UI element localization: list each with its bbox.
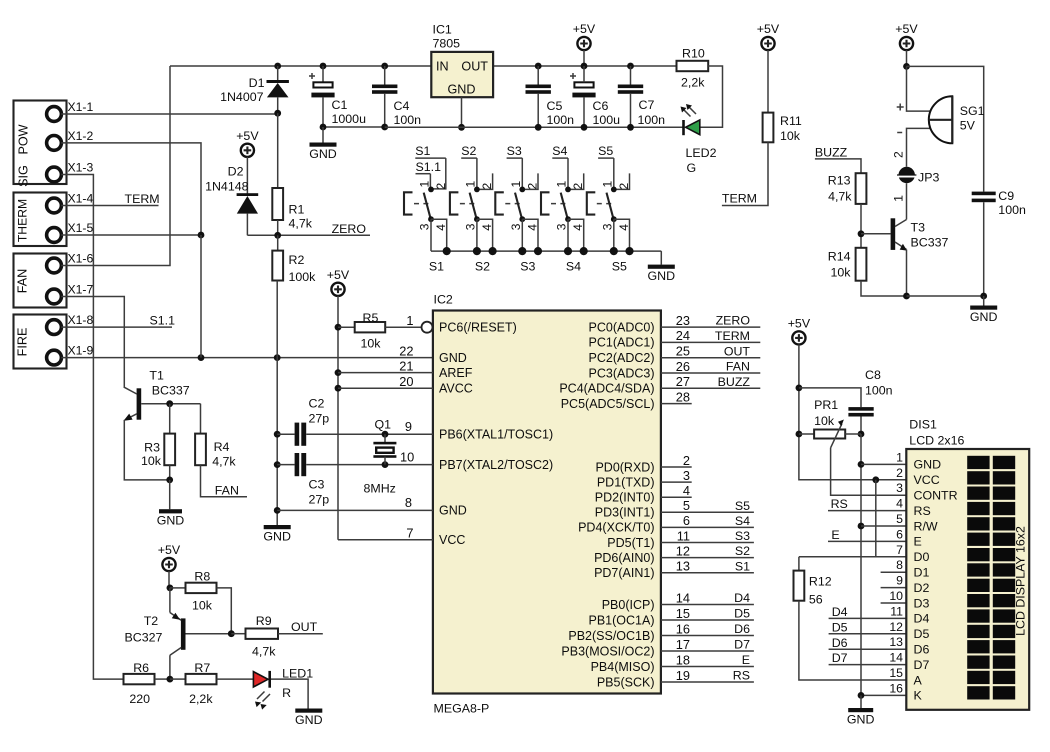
svg-text:S4: S4 <box>566 259 581 273</box>
svg-text:S1: S1 <box>429 259 444 273</box>
S1 contact dots <box>428 187 434 193</box>
junction R3 emitter <box>166 477 173 484</box>
svg-text:3: 3 <box>896 481 903 495</box>
connector X1 block FAN <box>14 254 67 308</box>
svg-text:3: 3 <box>601 223 615 230</box>
resistor R4 <box>200 404 202 434</box>
svg-text:X1-3: X1-3 <box>68 161 94 175</box>
svg-text:RS: RS <box>733 669 750 683</box>
connector X1 block FIRE <box>14 315 67 369</box>
svg-text:MEGA8-P: MEGA8-P <box>434 702 490 716</box>
svg-text:3: 3 <box>555 223 569 230</box>
svg-text:IC2: IC2 <box>434 293 453 307</box>
svg-text:S5: S5 <box>598 144 613 158</box>
svg-text:T1: T1 <box>149 369 164 383</box>
svg-text:7: 7 <box>896 543 903 557</box>
svg-text:6: 6 <box>683 513 690 528</box>
svg-text:D2: D2 <box>914 581 930 595</box>
wire VCC pin 7 <box>338 539 433 541</box>
LED LED2 green <box>682 120 685 135</box>
terminal X1-6 <box>47 258 62 273</box>
capacitor C3 <box>277 464 294 466</box>
LCD stub pins 8 9 10 <box>881 571 907 573</box>
wire T1 base to R3 R4 <box>141 403 200 405</box>
svg-text:GND: GND <box>970 310 998 324</box>
svg-text:10k: 10k <box>192 599 213 613</box>
connector X1 block THERM <box>14 193 67 247</box>
junction C4 bottom <box>381 124 388 131</box>
resistor R8 <box>170 587 186 589</box>
wire rail to ground <box>660 251 662 265</box>
svg-text:3: 3 <box>418 223 432 230</box>
wire R6 to junction <box>155 678 170 680</box>
svg-text:100k: 100k <box>289 270 317 284</box>
svg-text:GND: GND <box>648 269 676 283</box>
connector X1 block POW/SIG <box>14 101 67 185</box>
wire D0/R12 line <box>799 556 906 558</box>
svg-text:R11: R11 <box>780 114 802 128</box>
svg-text:D5: D5 <box>734 607 750 621</box>
transistor T3 BC337 <box>891 218 896 250</box>
svg-text:S1.1: S1.1 <box>416 160 442 174</box>
svg-text:OUT: OUT <box>724 344 751 358</box>
resistor R9 <box>231 633 245 635</box>
svg-text:10k: 10k <box>780 129 801 143</box>
regulator IC1 7805 <box>431 52 493 97</box>
terminal X1-1 <box>47 107 62 122</box>
terminal X1-8 <box>47 320 62 335</box>
svg-text:1: 1 <box>509 181 523 188</box>
wire C2 to pin 9 <box>306 433 433 435</box>
svg-text:PC2(ADC2): PC2(ADC2) <box>589 351 655 365</box>
svg-text:E: E <box>742 653 750 667</box>
svg-text:VCC: VCC <box>914 473 940 487</box>
terminal X1-9 <box>47 350 62 365</box>
svg-text:R/W: R/W <box>914 519 938 533</box>
svg-text:1: 1 <box>601 181 615 188</box>
resistor R14 <box>856 248 867 281</box>
svg-text:4,7k: 4,7k <box>828 190 852 204</box>
svg-text:ZERO: ZERO <box>716 314 751 328</box>
junction C8 top wire <box>796 385 803 392</box>
S4 contact dots <box>565 187 571 193</box>
svg-text:1N4148: 1N4148 <box>205 180 249 194</box>
svg-text:PD5(T1): PD5(T1) <box>607 536 654 550</box>
S1 pins to rail <box>430 219 432 251</box>
LCD cell matrix <box>967 456 1015 700</box>
svg-text:+5V: +5V <box>327 268 350 282</box>
junction R3 top <box>166 400 173 407</box>
svg-text:X1-2: X1-2 <box>68 129 94 143</box>
svg-text:3: 3 <box>683 468 690 483</box>
svg-text:27p: 27p <box>309 412 330 426</box>
svg-text:D4: D4 <box>734 591 750 605</box>
svg-text:DIS1: DIS1 <box>909 417 937 431</box>
svg-text:FAN: FAN <box>16 269 30 294</box>
svg-text:BC327: BC327 <box>125 631 163 645</box>
terminal X1-3 <box>47 167 62 182</box>
svg-text:220: 220 <box>129 692 150 706</box>
svg-text:PB7(XTAL2/TOSC2): PB7(XTAL2/TOSC2) <box>439 458 553 472</box>
svg-text:PR1: PR1 <box>814 398 838 412</box>
ground below switch rail <box>648 265 675 269</box>
junction GND rail C3 <box>274 461 281 468</box>
svg-text:R9: R9 <box>256 614 272 628</box>
wire X1-3 right then long down to R6 <box>61 175 123 680</box>
svg-text:S2: S2 <box>735 544 750 558</box>
svg-text:A: A <box>914 673 923 687</box>
svg-text:C6: C6 <box>593 99 609 113</box>
svg-text:S1.1: S1.1 <box>150 314 176 328</box>
junction GND rail pin8 <box>274 507 281 514</box>
svg-text:C9: C9 <box>998 189 1014 203</box>
resistor R2 <box>277 235 279 250</box>
svg-text:R2: R2 <box>289 253 305 267</box>
svg-text:4: 4 <box>683 483 690 498</box>
svg-text:100n: 100n <box>865 384 893 398</box>
svg-text:D5: D5 <box>914 627 930 641</box>
wire JP3 to speaker minus <box>907 128 930 166</box>
S5 contact dots <box>611 187 617 193</box>
svg-text:PB2(SS/OC1B): PB2(SS/OC1B) <box>568 629 654 643</box>
svg-text:C4: C4 <box>394 99 410 113</box>
svg-text:2: 2 <box>525 183 539 190</box>
svg-text:FAN: FAN <box>215 483 239 497</box>
S3 contact dots <box>519 187 525 193</box>
junction pin16 GND <box>858 692 865 699</box>
wire VCC branch down to D0 line <box>875 480 877 557</box>
svg-text:100u: 100u <box>593 113 621 127</box>
wire T3 emitter to rail <box>906 250 908 297</box>
svg-text:PD7(AIN1): PD7(AIN1) <box>594 566 654 580</box>
capacitor C7 <box>627 63 634 70</box>
wire C1 bottom to C4 bottom <box>323 126 385 128</box>
svg-text:1: 1 <box>896 450 903 464</box>
svg-text:15: 15 <box>889 666 903 680</box>
wire T2 emitter <box>169 588 171 613</box>
resistor R11 <box>763 113 774 143</box>
svg-text:20: 20 <box>399 374 413 389</box>
crystal Q1 <box>382 431 389 438</box>
ground below LCD <box>848 708 873 712</box>
svg-text:10k: 10k <box>361 337 382 351</box>
svg-text:2,2k: 2,2k <box>189 692 213 706</box>
LED LED1 red <box>253 672 268 687</box>
svg-text:19: 19 <box>676 668 690 683</box>
wire R14 to rail <box>861 281 907 296</box>
svg-text:28: 28 <box>676 389 690 404</box>
svg-text:ZERO: ZERO <box>332 222 367 236</box>
junction base/R9 node <box>228 630 235 637</box>
wire IC1 OUT to R10 <box>493 65 676 67</box>
svg-text:X1-8: X1-8 <box>68 313 94 327</box>
wire T3 base <box>861 233 891 235</box>
diode D1 <box>274 63 281 70</box>
svg-text:PB4(MISO): PB4(MISO) <box>591 660 655 674</box>
wire to C8 <box>799 388 861 407</box>
svg-text:C5: C5 <box>547 99 563 113</box>
S5 pins to rail <box>613 219 615 251</box>
svg-text:S3: S3 <box>520 259 535 273</box>
svg-text:R: R <box>282 686 291 700</box>
svg-text:FIRE: FIRE <box>16 328 30 357</box>
svg-text:13: 13 <box>889 635 903 649</box>
svg-text:IN: IN <box>436 60 449 74</box>
capacitor C5 <box>535 63 542 70</box>
wire X1-4 to TERM label <box>61 205 158 207</box>
wire pin 1 <box>861 463 906 465</box>
svg-text:23: 23 <box>676 313 690 328</box>
resistor R13 <box>856 173 867 204</box>
svg-text:D4: D4 <box>914 612 930 626</box>
wire vertical X1-2/X1-5 to X1-9 <box>200 235 202 358</box>
svg-text:1: 1 <box>892 195 906 202</box>
svg-text:SG1: SG1 <box>960 104 985 118</box>
svg-text:16: 16 <box>889 681 903 695</box>
svg-text:10k: 10k <box>814 414 835 428</box>
wire R2 bottom GND rail <box>276 281 278 526</box>
svg-text:13: 13 <box>676 559 690 574</box>
speaker SG1 <box>929 96 953 143</box>
S2 contact dots <box>474 187 480 193</box>
capacitor C4 <box>381 63 388 70</box>
svg-text:PC4(ADC4/SDA): PC4(ADC4/SDA) <box>559 382 654 396</box>
svg-text:25: 25 <box>676 344 690 359</box>
svg-text:S5: S5 <box>612 259 627 273</box>
svg-text:R6: R6 <box>133 661 149 675</box>
svg-text:R14: R14 <box>828 250 851 264</box>
junction PR1 right <box>858 431 865 438</box>
wire R3 bottom <box>169 465 171 480</box>
resistor R3 <box>169 404 171 434</box>
svg-text:2: 2 <box>683 453 690 468</box>
svg-text:4,7k: 4,7k <box>252 645 276 659</box>
svg-text:21: 21 <box>399 358 413 373</box>
svg-text:PD3(INT1): PD3(INT1) <box>595 506 655 520</box>
svg-text:3: 3 <box>464 223 478 230</box>
speaker minus sign <box>897 132 902 134</box>
svg-text:6: 6 <box>896 527 903 541</box>
wire pin 5 <box>861 525 906 527</box>
svg-text:PB1(OC1A): PB1(OC1A) <box>589 613 655 627</box>
svg-text:POW: POW <box>17 124 31 154</box>
wire R13 to R14 <box>860 204 862 248</box>
LED2 emission arrows <box>683 106 696 116</box>
svg-text:4,7k: 4,7k <box>289 217 313 231</box>
svg-text:1: 1 <box>555 181 569 188</box>
svg-text:LCD DISPLAY 16x2: LCD DISPLAY 16x2 <box>1014 526 1028 636</box>
svg-text:2: 2 <box>434 183 448 190</box>
svg-text:OUT: OUT <box>291 620 318 634</box>
svg-text:8MHz: 8MHz <box>364 482 396 496</box>
junction VCC branch <box>872 476 879 483</box>
svg-text:T2: T2 <box>144 614 159 628</box>
svg-text:IC1: IC1 <box>433 23 452 37</box>
junction PR1 left <box>796 431 803 438</box>
svg-text:GND: GND <box>448 83 476 97</box>
svg-text:1000u: 1000u <box>332 112 367 126</box>
junction ZERO node <box>274 232 281 239</box>
svg-text:R12: R12 <box>809 575 832 589</box>
resistor R10 <box>677 61 709 71</box>
svg-text:1N4007: 1N4007 <box>220 90 264 104</box>
wire R12 to pin 15 <box>799 601 906 680</box>
svg-text:PC1(ADC1): PC1(ADC1) <box>589 336 655 350</box>
svg-text:14: 14 <box>889 651 903 665</box>
svg-text:C3: C3 <box>309 478 325 492</box>
svg-text:AREF: AREF <box>439 366 473 380</box>
wire X1-5 to vertical junction <box>61 234 201 236</box>
svg-text:AVCC: AVCC <box>439 382 473 396</box>
svg-text:S2: S2 <box>475 259 490 273</box>
wire +5V to C9 <box>907 66 984 191</box>
svg-text:+5V: +5V <box>895 22 918 36</box>
svg-text:11: 11 <box>890 604 903 618</box>
wire +5V down to VCC <box>799 345 906 480</box>
svg-text:S4: S4 <box>552 144 567 158</box>
capacitor C8 <box>848 407 873 411</box>
junction T3 base node <box>858 230 865 237</box>
ground below C1 <box>322 127 324 143</box>
junction C1 bottom <box>320 124 327 131</box>
wire D1 to R1 <box>277 113 279 188</box>
jumper JP3 <box>899 167 915 183</box>
wire GND column C8 <box>860 434 862 695</box>
svg-text:R8: R8 <box>194 570 210 584</box>
svg-text:K: K <box>914 689 923 703</box>
capacitor C9 <box>972 192 996 196</box>
terminal X1-4 <box>47 198 62 213</box>
svg-text:27p: 27p <box>309 493 330 507</box>
svg-text:X1-7: X1-7 <box>68 283 94 297</box>
svg-text:D7: D7 <box>734 638 750 652</box>
svg-text:D2: D2 <box>228 165 244 179</box>
svg-text:7: 7 <box>406 526 413 541</box>
svg-text:5: 5 <box>896 512 903 526</box>
svg-text:2: 2 <box>896 466 903 480</box>
svg-text:+5V: +5V <box>573 22 596 36</box>
svg-text:100n: 100n <box>394 113 422 127</box>
svg-text:7805: 7805 <box>433 37 461 51</box>
wire AVCC pin 20 <box>335 385 342 392</box>
wire IC1 GND pin <box>461 97 463 127</box>
svg-text:+5V: +5V <box>757 22 780 36</box>
svg-text:D1: D1 <box>914 566 930 580</box>
junction T3 emitter rail <box>903 293 910 300</box>
wire T2 base <box>186 633 232 635</box>
wire T1 emitter down <box>124 420 169 480</box>
svg-text:R3: R3 <box>144 441 160 455</box>
svg-text:+5V: +5V <box>236 129 259 143</box>
resistor R5 <box>338 326 355 328</box>
junction pin5 RW <box>858 523 865 530</box>
svg-text:X1-1: X1-1 <box>68 100 94 114</box>
svg-text:S3: S3 <box>735 529 750 543</box>
switch S2 <box>450 192 477 219</box>
svg-text:X1-9: X1-9 <box>68 344 94 358</box>
svg-text:BC337: BC337 <box>911 236 949 250</box>
svg-text:S5: S5 <box>735 499 750 513</box>
svg-text:PC3(ADC3): PC3(ADC3) <box>589 366 655 380</box>
svg-text:C1: C1 <box>332 98 348 112</box>
svg-text:PD1(TXD): PD1(TXD) <box>597 475 655 489</box>
svg-text:R1: R1 <box>289 203 305 217</box>
svg-text:17: 17 <box>676 637 690 652</box>
svg-text:JP3: JP3 <box>918 171 939 185</box>
switch S5 <box>587 192 614 219</box>
ground below T1 <box>169 480 171 509</box>
svg-text:27: 27 <box>676 374 690 389</box>
ground below GND rail <box>264 525 291 529</box>
ground below LED1 <box>295 709 322 713</box>
svg-text:18: 18 <box>676 652 690 667</box>
junction C9 rail <box>980 293 987 300</box>
wire R11 to TERM label <box>722 142 768 205</box>
resistor R12 <box>794 571 805 601</box>
switch S4 <box>541 192 568 219</box>
svg-text:100n: 100n <box>998 203 1026 217</box>
svg-text:GND: GND <box>914 458 942 472</box>
wire PR1 wiper to CONTR <box>831 448 907 495</box>
display DIS1 box <box>906 449 1029 710</box>
wire R9 to OUT label <box>278 633 323 635</box>
microcontroller IC2 MEGA8-P <box>433 311 661 694</box>
wire C8 bottom <box>860 417 862 435</box>
svg-text:PB3(MOSI/OC2): PB3(MOSI/OC2) <box>561 644 654 658</box>
wire BUZZ to R13 <box>815 159 861 173</box>
svg-text:100n: 100n <box>638 113 666 127</box>
svg-text:22: 22 <box>399 343 413 358</box>
terminal X1-7 <box>47 289 62 304</box>
svg-text:PC0(ADC0): PC0(ADC0) <box>589 320 655 334</box>
svg-text:11: 11 <box>677 528 690 543</box>
terminal X1-5 <box>47 228 62 243</box>
svg-text:GND: GND <box>263 530 291 544</box>
svg-text:GND: GND <box>439 351 467 365</box>
wire +5V to R11 <box>767 50 769 113</box>
svg-text:+5V: +5V <box>788 316 811 330</box>
svg-text:R5: R5 <box>363 311 379 325</box>
svg-text:5: 5 <box>683 498 690 513</box>
svg-text:D7: D7 <box>914 658 930 672</box>
junction R8 emitter node <box>167 585 174 592</box>
svg-text:PD2(INT0): PD2(INT0) <box>595 491 655 505</box>
svg-text:GND: GND <box>309 147 337 161</box>
svg-text:THERM: THERM <box>16 199 30 242</box>
svg-text:1: 1 <box>464 181 478 188</box>
svg-text:14: 14 <box>676 590 690 605</box>
svg-text:3: 3 <box>509 223 523 230</box>
svg-text:12: 12 <box>889 620 903 634</box>
svg-text:X1-5: X1-5 <box>68 221 94 235</box>
wire LED1 to ground <box>271 679 308 708</box>
svg-text:C8: C8 <box>865 368 881 382</box>
svg-text:1: 1 <box>406 313 413 328</box>
wire R8 to base node <box>217 588 232 634</box>
svg-text:D5: D5 <box>832 620 848 634</box>
svg-text:2: 2 <box>480 183 494 190</box>
svg-text:24: 24 <box>676 328 690 343</box>
wire down to R12 <box>798 557 800 571</box>
svg-text:BUZZ: BUZZ <box>718 375 751 389</box>
wire R7 to LED1 <box>217 678 254 680</box>
wire X1-8 to S1.1 label <box>61 326 172 328</box>
svg-text:D7: D7 <box>832 651 848 665</box>
svg-text:4,7k: 4,7k <box>212 455 236 469</box>
junction R6 R7 collector <box>167 676 174 683</box>
svg-text:10k: 10k <box>141 454 162 468</box>
speaker plus sign <box>897 104 904 111</box>
